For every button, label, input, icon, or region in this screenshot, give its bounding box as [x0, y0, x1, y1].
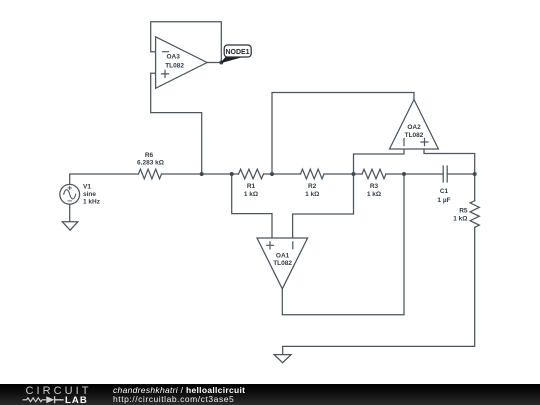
svg-text:R5: R5: [459, 208, 468, 215]
footer url line 2: [113, 394, 234, 404]
svg-text:TL082: TL082: [405, 132, 424, 139]
wire: OA3 non-inverting input down to main net: [151, 73, 202, 174]
svg-text:C1: C1: [440, 188, 449, 195]
footer bar: [0, 384, 540, 405]
svg-text:sine: sine: [83, 191, 96, 198]
footer attribution line 1: [113, 385, 245, 395]
op-amp OA2 input polarity marks: [404, 139, 428, 146]
ground (output net): [274, 355, 291, 363]
wire: OA2 inverting input to net and down to OA1 inverting input: [293, 149, 404, 238]
svg-text:1 kΩ: 1 kΩ: [244, 191, 258, 198]
svg-text:1 kΩ: 1 kΩ: [305, 191, 319, 198]
source V1: [60, 184, 80, 204]
svg-text:NODE1: NODE1: [225, 49, 249, 56]
op-amp OA3 input polarity marks: [162, 52, 169, 78]
svg-text:1 kHz: 1 kHz: [83, 198, 101, 205]
wire: OA3 feedback output to inverting input: [151, 22, 222, 63]
op-amp OA3: [156, 37, 208, 89]
wire: V1 bottom lead: [69, 204, 71, 221]
op-amp OA1: [257, 238, 308, 289]
wire: R6 right to R1 left: [162, 173, 239, 175]
wire: V1 top to R6 left: [70, 174, 139, 184]
svg-text:TL082: TL082: [165, 63, 184, 70]
svg-text:R3: R3: [370, 183, 379, 190]
svg-text:LAB: LAB: [65, 395, 88, 405]
svg-text:R2: R2: [308, 183, 317, 190]
svg-text:R1: R1: [247, 183, 256, 190]
ground (V1): [62, 222, 78, 231]
node junction dots on main net: [200, 61, 477, 177]
wire: R5 top lead: [474, 174, 476, 201]
svg-text:V1: V1: [83, 184, 91, 191]
logo resistor zigzag: [23, 398, 47, 402]
resistor R1: [239, 169, 264, 179]
wire: R1 right to R2 left: [264, 173, 301, 175]
svg-text:1 kΩ: 1 kΩ: [367, 191, 381, 198]
resistor R6: [139, 169, 162, 179]
node junction dot at OA3 output: [219, 61, 223, 65]
wire: R2 right to R3 left: [324, 173, 362, 175]
op-amp OA1 input polarity marks: [267, 242, 293, 249]
svg-text:OA2: OA2: [407, 124, 421, 131]
svg-text:OA3: OA3: [167, 54, 181, 61]
svg-text:1 µF: 1 µF: [437, 197, 450, 204]
svg-text:1 kΩ: 1 kΩ: [453, 216, 467, 223]
wire: OA2 non-inverting input to C1/R5 node: [424, 149, 475, 174]
logo diode: [46, 396, 54, 403]
resistor R5: [470, 201, 479, 228]
wire: main net down to OA1 non-inverting input: [232, 174, 272, 238]
capacitor C1: [443, 166, 447, 182]
resistor R2: [301, 169, 325, 179]
svg-text:OA1: OA1: [276, 252, 290, 259]
op-amp OA2: [390, 100, 439, 150]
node NODE1 flag: [221, 45, 251, 62]
wire: R3 right to C1 left plate: [386, 173, 443, 175]
wire: OA2 output down to main net: [272, 93, 414, 175]
svg-text:6.283 kΩ: 6.283 kΩ: [137, 159, 164, 166]
svg-text:R6: R6: [145, 152, 154, 159]
wire: C1 right plate to R5 top node: [447, 173, 475, 175]
resistor R3: [362, 169, 386, 179]
wire: OA1 output loop up to R3/C1 node: [282, 174, 404, 315]
wire: R5 bottom lead to ground 2: [283, 227, 475, 354]
svg-text:TL082: TL082: [273, 260, 292, 267]
